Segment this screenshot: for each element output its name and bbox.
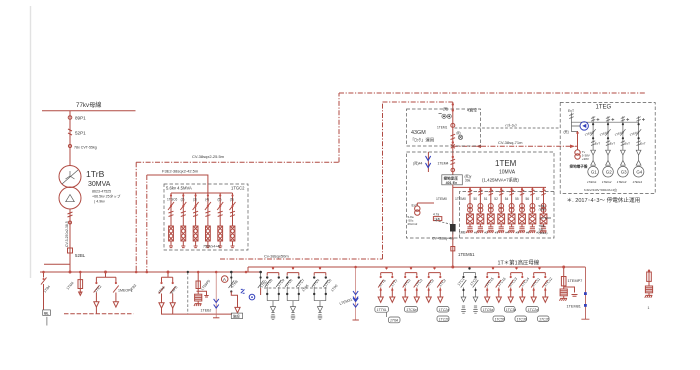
disconnector node bbox=[68, 144, 71, 147]
side capacitor tap bbox=[564, 287, 578, 296]
label box cell8 a bbox=[481, 307, 494, 313]
label box cell6 a bbox=[437, 307, 449, 313]
cubicle box 施設 bbox=[231, 313, 242, 318]
svg-text:( 4.9kv: ( 4.9kv bbox=[94, 200, 105, 204]
gen tap 2 top fuse bbox=[606, 116, 614, 122]
cell group 4 bbox=[378, 267, 394, 297]
1TEM bank bottom labels bbox=[459, 231, 540, 235]
label box cell9 a bbox=[505, 307, 516, 313]
svg-text:1TC5b: 1TC5b bbox=[495, 317, 505, 321]
route B vertical x147 bbox=[146, 175, 148, 272]
triangle out 1T03 bbox=[159, 303, 164, 308]
svg-text:ｴEB: ｴEB bbox=[434, 217, 440, 221]
1TEM bank number labels bbox=[474, 197, 540, 201]
tail route left pair bbox=[95, 307, 97, 314]
feeder 1TM4 bbox=[79, 272, 81, 280]
svg-text:(1,425MVA×7系統): (1,425MVA×7系統) bbox=[482, 177, 519, 184]
EVT branch wire bbox=[417, 202, 434, 204]
route C horizontal y102 bbox=[383, 101, 453, 103]
svg-text:1TEM1: 1TEM1 bbox=[437, 126, 448, 130]
bank column 4 bbox=[205, 193, 211, 248]
inner bank box bbox=[460, 192, 555, 239]
route C horizontal y259 bbox=[220, 258, 383, 260]
svg-text:+66.5kv 25タップ: +66.5kv 25タップ bbox=[92, 194, 121, 199]
page edge line bbox=[30, 6, 32, 278]
arrester 1TEMP7 bbox=[563, 286, 565, 289]
fuse 1TM4 bbox=[78, 280, 83, 289]
bank column 5 bbox=[217, 193, 223, 248]
generator branch 2 bbox=[603, 122, 614, 177]
black cell 1T6B bbox=[230, 272, 232, 288]
svg-text:1TEBJ: 1TEBJ bbox=[201, 309, 212, 313]
bank column 1 bbox=[168, 193, 174, 248]
svg-text:29c/m2: 29c/m2 bbox=[408, 222, 418, 226]
svg-text:EvT: EvT bbox=[595, 142, 601, 146]
svg-text:1TEG: 1TEG bbox=[596, 105, 612, 111]
spare dashed feeder black bbox=[187, 272, 189, 314]
meter circle blue bbox=[580, 122, 588, 130]
breaker ticks bbox=[451, 134, 456, 139]
breaker 52BL bbox=[68, 248, 73, 253]
wire from 77kv bus down bbox=[69, 111, 71, 166]
svg-text:#4: #4 bbox=[505, 231, 509, 235]
disconnector 89P1 bbox=[68, 116, 72, 120]
right 6kV bus 1T no1 bbox=[248, 266, 585, 268]
route A horizontal y162 bbox=[136, 161, 339, 163]
svg-text:54: 54 bbox=[505, 197, 509, 201]
svg-text:Cv-38sqx50m: Cv-38sqx50m bbox=[264, 254, 289, 259]
svg-text:G4: G4 bbox=[636, 170, 642, 175]
generator header wire bbox=[572, 121, 639, 123]
svg-text:(s)TEM6: (s)TEM6 bbox=[540, 216, 552, 220]
cell group 6 bbox=[426, 267, 442, 297]
svg-text:(4): (4) bbox=[205, 198, 209, 202]
generator branch 4 bbox=[633, 122, 644, 177]
svg-text:EvT: EvT bbox=[625, 142, 631, 146]
star glyph in primary bbox=[62, 170, 78, 184]
svg-text:EvT: EvT bbox=[568, 109, 574, 113]
label box 1T6A bbox=[388, 317, 400, 323]
end tick bbox=[213, 317, 219, 319]
breaker 52 black bbox=[450, 224, 456, 232]
svg-text:#5: #5 bbox=[516, 231, 520, 235]
svg-text:CV-38sqx2-25.5m: CV-38sqx2-25.5m bbox=[192, 154, 225, 159]
svg-text:1TEG1: 1TEG1 bbox=[587, 180, 597, 184]
svg-text:78x CVT-55kg: 78x CVT-55kg bbox=[74, 146, 97, 150]
svg-text:1TEG2: 1TEG2 bbox=[602, 180, 612, 184]
cell group 2 bbox=[285, 267, 301, 312]
bank column 3 bbox=[193, 193, 199, 248]
generator branch 3 bbox=[618, 122, 629, 177]
pair cell 1TE2 header bbox=[96, 272, 116, 282]
triangle out 1TE2 bbox=[94, 302, 99, 307]
blue meter circle bbox=[249, 294, 255, 300]
cell group 7 black bbox=[461, 267, 479, 297]
svg-text:1TT6L: 1TT6L bbox=[377, 308, 387, 312]
box 1TEM bbox=[407, 152, 555, 238]
svg-text:/38W: /38W bbox=[539, 208, 546, 212]
svg-text:+38V: +38V bbox=[582, 157, 589, 161]
svg-text:1TC2a: 1TC2a bbox=[439, 308, 449, 312]
junction 1TEM51 bbox=[451, 266, 454, 269]
wire EvT down bbox=[572, 122, 581, 131]
black cell 1T6C bbox=[260, 272, 262, 288]
route D horizontal y146 bbox=[453, 145, 578, 147]
interlock dashed across cells bbox=[264, 287, 327, 289]
svg-text:30MVA: 30MVA bbox=[88, 181, 111, 188]
svg-text:52: 52 bbox=[494, 197, 498, 201]
label box cell8 b bbox=[493, 316, 505, 322]
triangles black cell bbox=[461, 297, 466, 302]
svg-text:接地端子盤: 接地端子盤 bbox=[570, 164, 588, 169]
svg-text:57: 57 bbox=[536, 197, 540, 201]
1TEM bank 6 bbox=[518, 187, 525, 233]
svg-text:1TC3b: 1TC3b bbox=[517, 317, 527, 321]
junction 1TrB to bus bbox=[69, 271, 72, 274]
svg-text:EvT: EvT bbox=[640, 142, 646, 146]
bank labels row bbox=[167, 198, 234, 202]
arrow on route D right bbox=[570, 145, 575, 149]
label box cell6 b bbox=[437, 316, 449, 322]
svg-text:#2: #2 bbox=[484, 231, 488, 235]
svg-text:1TC6a: 1TC6a bbox=[406, 308, 416, 312]
generator G labels bbox=[591, 170, 643, 175]
box 1TEG bbox=[560, 103, 655, 194]
svg-text:(5): (5) bbox=[218, 198, 222, 202]
EVT winding bbox=[415, 206, 420, 215]
svg-text:4.7a: 4.7a bbox=[433, 213, 439, 217]
svg-text:(3): (3) bbox=[193, 198, 197, 202]
svg-text:F3E2-38sqx2-42.5m: F3E2-38sqx2-42.5m bbox=[162, 169, 199, 174]
tick on feeder bbox=[452, 156, 454, 158]
1TEM bank 7 bbox=[529, 187, 536, 233]
svg-text:(38kw): (38kw) bbox=[539, 231, 548, 235]
svg-text:1TEM81: 1TEM81 bbox=[567, 305, 581, 309]
blue chevrons bbox=[214, 299, 219, 308]
svg-text:G2: G2 bbox=[606, 170, 612, 175]
delta glyph in secondary bbox=[66, 195, 75, 202]
svg-text:52BL: 52BL bbox=[75, 253, 86, 258]
left 6kV bus bbox=[40, 271, 262, 273]
arrester LT59P5 bbox=[197, 289, 199, 295]
gen tap 4 top fuse bbox=[637, 116, 645, 122]
svg-text:CV-3-250x2-38.5: CV-3-250x2-38.5 bbox=[65, 221, 69, 247]
junction route A bbox=[135, 271, 138, 274]
svg-text:39a: 39a bbox=[465, 179, 471, 183]
bank header bbox=[171, 192, 233, 194]
svg-text:1TC2a: 1TC2a bbox=[528, 308, 538, 312]
svg-text:77kv母線: 77kv母線 bbox=[76, 101, 101, 109]
interlock tee symbol bbox=[458, 135, 462, 139]
triangle out B9P5 bbox=[170, 303, 175, 308]
svg-text:5.6kv 4.5MVA: 5.6kv 4.5MVA bbox=[166, 186, 192, 191]
1TEM side ratings bbox=[539, 204, 552, 235]
bus step connector bbox=[247, 267, 249, 272]
isolated arrester far right bbox=[645, 270, 653, 311]
cell group 5 bbox=[403, 267, 419, 297]
label box cell10 a bbox=[526, 307, 539, 313]
bend to triangle bbox=[231, 292, 237, 308]
svg-text:750Vx4+4t: 750Vx4+4t bbox=[203, 245, 220, 249]
label box 1TT6L bbox=[375, 306, 389, 312]
svg-text:(死)44: (死)44 bbox=[413, 162, 423, 166]
pair cell 1T03 header bbox=[162, 272, 173, 282]
svg-text:1TEM4: 1TEM4 bbox=[438, 162, 449, 166]
label box cell9 b bbox=[515, 316, 527, 322]
svg-text:(2): (2) bbox=[181, 198, 185, 202]
svg-text:1TEMP7: 1TEMP7 bbox=[568, 279, 583, 283]
meter A circle bbox=[221, 276, 228, 283]
arrester pair blue bbox=[427, 152, 429, 172]
cell group 1 bbox=[265, 267, 281, 312]
triangle out 1MEOP1 bbox=[113, 302, 118, 307]
svg-text:1TEM: 1TEM bbox=[495, 159, 517, 168]
EvT ticks bbox=[569, 113, 573, 123]
svg-text:1TEG4: 1TEG4 bbox=[633, 180, 643, 184]
disconnector 1TEM51 bbox=[451, 247, 455, 251]
blue connector dots bbox=[584, 292, 587, 295]
svg-text:89P1: 89P1 bbox=[75, 116, 86, 121]
bank column 6 bbox=[230, 193, 236, 248]
gen tap 1 top fuse bbox=[591, 116, 599, 122]
wire transformer to 52BL bbox=[69, 209, 71, 272]
feeder 1T84 drop bbox=[43, 272, 45, 310]
svg-text:10MVA: 10MVA bbox=[499, 170, 516, 176]
svg-text:1TC2b: 1TC2b bbox=[539, 317, 549, 321]
svg-text:1T6A: 1T6A bbox=[390, 319, 399, 323]
triangles cell8 bbox=[485, 297, 490, 302]
1TEM bank 8 bbox=[540, 187, 547, 233]
bus end drop bbox=[581, 267, 589, 319]
control dashed wire bbox=[435, 221, 450, 225]
77kv bus bbox=[42, 110, 136, 112]
svg-text:(6): (6) bbox=[230, 198, 234, 202]
svg-text:1TEM0: 1TEM0 bbox=[455, 197, 466, 201]
svg-text:43GM: 43GM bbox=[411, 130, 426, 136]
junction bbox=[245, 271, 248, 274]
svg-text:G3: G3 bbox=[621, 170, 627, 175]
svg-text:1TrB: 1TrB bbox=[86, 169, 105, 179]
arrow down 1TM4 bbox=[79, 289, 82, 296]
svg-text:1MB: 1MB bbox=[459, 231, 466, 235]
svg-text:BL: BL bbox=[44, 311, 49, 315]
end tick bbox=[353, 319, 359, 321]
box 43GM bbox=[407, 109, 481, 146]
stub line left end bbox=[44, 263, 70, 265]
arrow on route D left bbox=[476, 145, 481, 149]
bank feeder drop bbox=[207, 184, 209, 193]
side tap capacitor bbox=[197, 291, 207, 295]
cell group 10 bbox=[531, 267, 547, 297]
svg-text:#3: #3 bbox=[495, 231, 499, 235]
svg-text:接地変圧: 接地変圧 bbox=[444, 175, 459, 180]
cable ticks below transformer bbox=[68, 212, 73, 217]
svg-text:6.6kV/440V 500kVA×4台: 6.6kV/440V 500kVA×4台 bbox=[584, 187, 617, 192]
1TEM bank 5 bbox=[508, 187, 515, 233]
tail route pair2 bbox=[162, 308, 233, 314]
bank header wire bbox=[453, 185, 546, 267]
branch labels 1TEG bbox=[584, 130, 640, 137]
svg-text:＊. 2017･4･3～ 停電休止運用: ＊. 2017･4･3～ 停電休止運用 bbox=[567, 196, 641, 204]
svg-text:51: 51 bbox=[484, 197, 488, 201]
svg-text:1TC3a: 1TC3a bbox=[506, 308, 516, 312]
1TEM bank 3 bbox=[487, 187, 494, 233]
svg-text:CV-38sq-71m: CV-38sq-71m bbox=[498, 140, 523, 145]
junction route B bbox=[146, 271, 149, 274]
svg-text:52P1: 52P1 bbox=[75, 131, 86, 136]
generator name labels bbox=[587, 180, 642, 184]
tick on feeder bbox=[452, 103, 454, 105]
svg-text:8623-47525: 8623-47525 bbox=[92, 190, 111, 194]
svg-text:1TC2b: 1TC2b bbox=[439, 317, 449, 321]
box 1TGC bbox=[164, 184, 248, 250]
gen tap 3 top fuse bbox=[621, 116, 629, 122]
svg-text:1TGC6: 1TGC6 bbox=[167, 198, 178, 202]
interlock dashed wire bbox=[455, 127, 561, 129]
route A horizontal y93 bbox=[339, 92, 645, 94]
blue slant arrester bbox=[241, 289, 245, 293]
cubicle box left bbox=[43, 310, 51, 316]
svg-text:1TEM51: 1TEM51 bbox=[458, 252, 475, 257]
breaker 52P1 bbox=[68, 129, 72, 135]
svg-text:1TEM0: 1TEM0 bbox=[436, 197, 447, 201]
1TEM bank 1 bbox=[466, 187, 473, 233]
cell group 8 bbox=[485, 267, 501, 297]
svg-text:1TEG3: 1TEG3 bbox=[617, 180, 627, 184]
svg-text:56: 56 bbox=[526, 197, 530, 201]
cell group 9 bbox=[508, 267, 524, 297]
branch 1TE2 bbox=[95, 282, 97, 284]
blue cable feeder mid bbox=[355, 267, 357, 320]
svg-text:401 Ev: 401 Ev bbox=[446, 181, 457, 185]
svg-text:(死): (死) bbox=[564, 130, 569, 134]
branch 1T03 bbox=[160, 282, 162, 284]
route A vertical x339 bbox=[338, 93, 340, 162]
svg-text:施設: 施設 bbox=[233, 313, 240, 318]
fuse LT59P5 bbox=[196, 281, 200, 289]
feeder LT59P5 bbox=[197, 272, 199, 281]
route C vertical x382.5 bbox=[382, 102, 384, 259]
svg-text:EvT: EvT bbox=[610, 142, 616, 146]
breaker node circle bbox=[451, 123, 455, 127]
transformer 1TrB secondary winding bbox=[59, 187, 81, 209]
grounding transformer box 401Ev bbox=[442, 175, 463, 185]
route A vertical x136 bbox=[135, 162, 137, 272]
disconnector node bbox=[69, 221, 72, 224]
feeder 1TEMP7 bbox=[563, 267, 565, 277]
junction cross on route D bbox=[451, 144, 455, 148]
blue cable feeder bbox=[215, 272, 217, 318]
1TEM bank 4 bbox=[498, 187, 505, 233]
branch 1MEOP1 bbox=[115, 282, 117, 284]
main feeder wire x453 bbox=[452, 102, 454, 175]
branch B9P5 bbox=[172, 282, 174, 284]
svg-text:4真空: 4真空 bbox=[467, 107, 477, 113]
svg-text:1: 1 bbox=[648, 306, 650, 310]
svg-text:1TC5a: 1TC5a bbox=[483, 308, 493, 312]
svg-text:CV+38sq+4m: CV+38sq+4m bbox=[432, 237, 454, 241]
svg-text:(死): (死) bbox=[456, 131, 461, 135]
branch EvT labels bbox=[595, 142, 646, 146]
svg-text:ｲﾝﾀｰﾛｯｸ: ｲﾝﾀｰﾛｯｸ bbox=[505, 123, 517, 128]
svg-text:55: 55 bbox=[515, 197, 519, 201]
svg-text:50: 50 bbox=[474, 197, 478, 201]
transformer 1TrB primary winding bbox=[59, 166, 81, 188]
svg-text:#6: #6 bbox=[526, 231, 530, 235]
Tv transformer red bbox=[577, 131, 579, 150]
bank column 2 bbox=[180, 193, 186, 248]
svg-text:G1: G1 bbox=[591, 170, 597, 175]
svg-text:#1: #1 bbox=[474, 231, 478, 235]
route B horizontal y175 bbox=[147, 175, 208, 184]
svg-text:1TGC2: 1TGC2 bbox=[231, 186, 245, 191]
1TEM bank 2 bbox=[477, 187, 484, 233]
label box cell10 b bbox=[538, 316, 550, 322]
svg-text:(死): (死) bbox=[443, 107, 448, 111]
disconnector pair circles bbox=[442, 114, 446, 118]
svg-text:1T＊第1高圧母線: 1T＊第1高圧母線 bbox=[498, 259, 540, 267]
generator branch 1 bbox=[588, 122, 599, 177]
cell group 3 bbox=[312, 267, 328, 312]
